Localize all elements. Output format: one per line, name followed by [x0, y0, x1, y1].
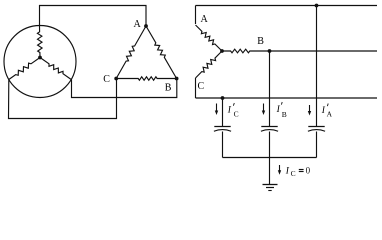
svg-text:B: B — [282, 110, 287, 119]
ground current arrow — [278, 165, 281, 175]
ground symbol — [263, 185, 278, 191]
delta resistor side A-C — [116, 26, 146, 79]
svg-text:C: C — [103, 74, 110, 85]
wire machine LR terminal to delta B — [72, 79, 177, 98]
phase line C (bottom) — [196, 97, 378, 99]
alternator stator circle — [4, 26, 76, 98]
node C tap — [221, 96, 225, 100]
load resistor C — [196, 51, 223, 78]
wire machine top terminal up — [39, 5, 41, 26]
load neutral node — [220, 49, 224, 53]
svg-text:C: C — [198, 81, 205, 92]
svg-text:I: I — [321, 106, 326, 116]
current arrow I'A — [308, 105, 311, 116]
svg-text:I: I — [276, 105, 281, 115]
capacitor C-phase — [214, 127, 231, 132]
wire terminal A drop — [195, 6, 197, 25]
phase line A (top) — [196, 5, 378, 7]
svg-text:I: I — [227, 106, 232, 116]
wire top bus to delta A — [39, 5, 147, 7]
delta node C — [114, 77, 118, 81]
delta resistor side A-B — [146, 26, 177, 79]
wire branch C to bus — [222, 132, 224, 158]
label I'B — [276, 102, 287, 119]
load resistor B — [222, 49, 270, 53]
delta resistor side C-B — [116, 77, 176, 80]
svg-text:A: A — [327, 110, 333, 119]
svg-text:B: B — [257, 36, 264, 47]
node A tap — [315, 4, 319, 8]
wire branch A to bus — [316, 132, 318, 158]
winding resistor phase c (lower-right arm) — [40, 58, 71, 80]
svg-text:I: I — [285, 167, 290, 177]
wire down into delta A — [145, 5, 147, 26]
label I'C — [227, 103, 239, 118]
current arrow I'C — [215, 104, 218, 116]
node B tap — [268, 49, 272, 53]
wire branch B drop — [269, 51, 271, 127]
wire terminal C rise — [195, 78, 197, 98]
svg-text:A: A — [201, 14, 209, 25]
svg-text:B: B — [165, 83, 172, 94]
winding resistor phase a (top arm) — [37, 26, 42, 58]
svg-text:C: C — [234, 109, 239, 118]
wire branch A drop — [316, 6, 318, 127]
phase line B (middle) — [270, 50, 378, 52]
wire branch C drop — [222, 98, 224, 127]
current arrow I'B — [262, 104, 265, 116]
delta node A — [144, 24, 148, 28]
delta node B — [175, 77, 179, 81]
svg-text:C: C — [291, 169, 296, 178]
machine neutral node — [38, 56, 42, 60]
winding resistor phase b (lower-left arm) — [9, 58, 40, 80]
capacitor A-phase — [308, 127, 325, 132]
capacitor B-phase — [261, 127, 278, 132]
label I'A — [321, 104, 333, 119]
label IC = 0 — [285, 166, 311, 178]
load resistor A — [196, 25, 223, 51]
svg-text:A: A — [134, 19, 142, 30]
bottom bus wire — [223, 157, 317, 159]
wire machine LL terminal to delta C — [9, 79, 117, 119]
wire branch B to ground — [269, 132, 271, 185]
svg-text:0: 0 — [306, 166, 311, 176]
